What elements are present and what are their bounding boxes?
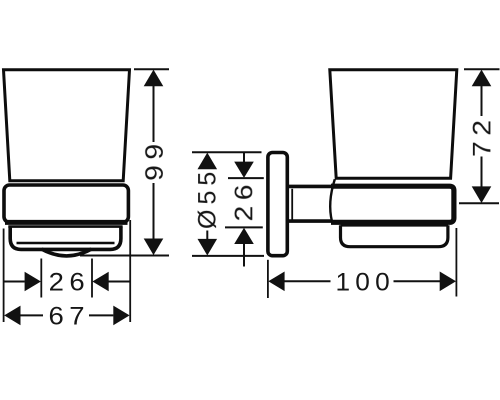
dimension 26 front	[4, 259, 131, 298]
svg-text:100: 100	[335, 269, 395, 296]
svg-text:72: 72	[468, 114, 496, 157]
front view: lower bracket	[8, 227, 122, 250]
dimension 26 side	[225, 153, 264, 267]
side view: holder ring	[330, 179, 454, 222]
dimension 67	[4, 220, 131, 325]
svg-text:67: 67	[48, 302, 90, 331]
svg-text:99: 99	[140, 138, 168, 181]
dimension 99	[80, 69, 169, 255]
side view: wall plate	[268, 153, 287, 256]
side view: glass tumbler	[330, 70, 457, 179]
front view: glass tumbler	[4, 70, 130, 181]
front view: glass bottom arc	[42, 249, 92, 256]
svg-text:26: 26	[49, 268, 91, 297]
side view: lower bracket	[341, 225, 449, 246]
side view: arm	[288, 186, 332, 221]
svg-text:26: 26	[230, 179, 258, 222]
dimension 72	[459, 69, 500, 203]
side view: collar line	[291, 189, 293, 220]
front view: holder ring	[4, 185, 128, 222]
dimension 100	[268, 228, 457, 298]
svg-text:Ø55: Ø55	[194, 167, 222, 229]
dimension diameter 55	[192, 152, 264, 256]
